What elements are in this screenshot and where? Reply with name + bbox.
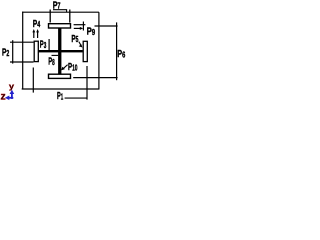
svg-text:P6: P6: [117, 48, 125, 60]
dimension P9 left segment: [74, 24, 86, 26]
axes z arrow: [8, 97, 13, 99]
P1 right witness: [86, 66, 88, 100]
right side plate: [83, 41, 87, 61]
top flange: [49, 24, 71, 28]
web: [58, 28, 61, 73]
dimension P6 line: [116, 22, 118, 80]
svg-text:P10: P10: [68, 61, 78, 73]
P7 leader underline: [53, 10, 67, 13]
svg-text:P4: P4: [33, 18, 41, 30]
P7 right tick: [69, 10, 71, 23]
axes y arrow: [11, 93, 13, 99]
P8 witness tick: [52, 54, 59, 56]
bottom extension line: [73, 77, 117, 79]
dimension P7 line: [22, 11, 99, 13]
P7 left tick: [49, 10, 51, 23]
background: [0, 0, 128, 103]
P1 left witness tick: [32, 68, 34, 93]
P10 arrow: [63, 65, 67, 69]
dimension P1 line: [22, 88, 99, 90]
P9 arrow: [74, 27, 80, 29]
svg-text:P9: P9: [87, 26, 96, 38]
P2 top witness: [10, 41, 34, 43]
svg-text:P1: P1: [57, 90, 63, 102]
mid horizontal bar: [36, 50, 83, 52]
dimension P9 right segment: [95, 25, 118, 27]
svg-text:y: y: [9, 81, 14, 91]
svg-text:P5: P5: [71, 33, 78, 45]
P4 arrow 1: [33, 32, 35, 39]
svg-text:P2: P2: [2, 47, 10, 59]
left extension line: [22, 12, 24, 90]
bottom flange: [49, 74, 71, 78]
svg-text:z: z: [1, 91, 6, 103]
P9 witness tick: [82, 22, 84, 31]
left side plate: [34, 41, 38, 61]
svg-text:P8: P8: [48, 56, 55, 68]
P4 arrow 2: [37, 32, 39, 39]
svg-text:P3: P3: [40, 39, 47, 51]
P2 bottom witness: [10, 61, 34, 63]
right extension line: [98, 12, 100, 89]
dimension P2 line: [12, 40, 14, 63]
P1 leader: [65, 97, 87, 99]
P5 arrow: [79, 42, 81, 46]
P3 leader: [48, 39, 50, 50]
